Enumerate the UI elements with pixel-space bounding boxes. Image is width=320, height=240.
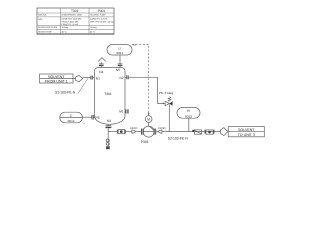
svg-text:N5: N5 [116,68,120,72]
svg-text:CAPACITY: 10 m3: CAPACITY: 10 m3 [62,23,79,26]
svg-text:DIFF. PRESSURE: 3.5 bar: DIFF. PRESSURE: 3.5 bar [90,20,114,23]
svg-text:40 °C: 40 °C [62,31,68,34]
svg-text:SOLVENT: SOLVENT [48,75,65,79]
svg-text:M: M [147,117,150,121]
svg-text:SOLVENT: SOLVENT [238,128,255,132]
svg-text:DESIGN PRESSURE: DESIGN PRESSURE [38,26,58,29]
svg-text:S1-100-PE-N: S1-100-PE-N [55,91,76,95]
svg-text:M1: M1 [119,109,124,113]
svg-text:LI: LI [70,114,73,118]
svg-text:40 °C: 40 °C [90,31,96,34]
svg-text:P301: P301 [98,9,106,13]
svg-text:10 barg: 10 barg [90,26,97,29]
svg-text:10 barg: 10 barg [62,26,69,29]
svg-text:N4: N4 [99,70,103,74]
svg-text:N3: N3 [107,119,111,123]
svg-text:PI: PI [187,109,190,113]
svg-text:S2-100-PE-N: S2-100-PE-N [168,137,189,141]
svg-text:SERVICE: SERVICE [38,14,47,17]
svg-text:P301: P301 [141,140,149,144]
svg-text:0011: 0011 [116,51,123,55]
svg-text:LI: LI [119,46,122,50]
svg-text:100/50: 100/50 [130,127,138,130]
svg-text:100/50: 100/50 [158,127,166,130]
svg-text:N2: N2 [120,76,124,80]
svg-text:NM: NM [133,43,136,46]
svg-text:DESIGN TEMP.: DESIGN TEMP. [38,31,52,34]
svg-text:FROM UNIT 1: FROM UNIT 1 [45,79,68,83]
svg-text:0012: 0012 [68,119,75,123]
svg-text:N6: N6 [95,115,99,119]
svg-text:0013: 0013 [185,114,192,118]
svg-text:TO UNIT 3: TO UNIT 3 [238,133,255,137]
svg-text:CAPACITY: 5 m3/h: CAPACITY: 5 m3/h [90,18,107,21]
svg-text:PR. 8 barg: PR. 8 barg [159,91,174,95]
svg-text:SOLVENT PUMP: SOLVENT PUMP [90,14,106,17]
svg-text:SIZE: SIZE [38,18,43,21]
svg-text:ATMOSPHERIC TANK: ATMOSPHERIC TANK [62,14,83,17]
svg-text:DIAMETER: 2000 MM: DIAMETER: 2000 MM [62,18,82,21]
svg-text:T301: T301 [104,92,111,96]
svg-text:T301: T301 [71,9,79,13]
svg-text:N1: N1 [96,76,100,80]
